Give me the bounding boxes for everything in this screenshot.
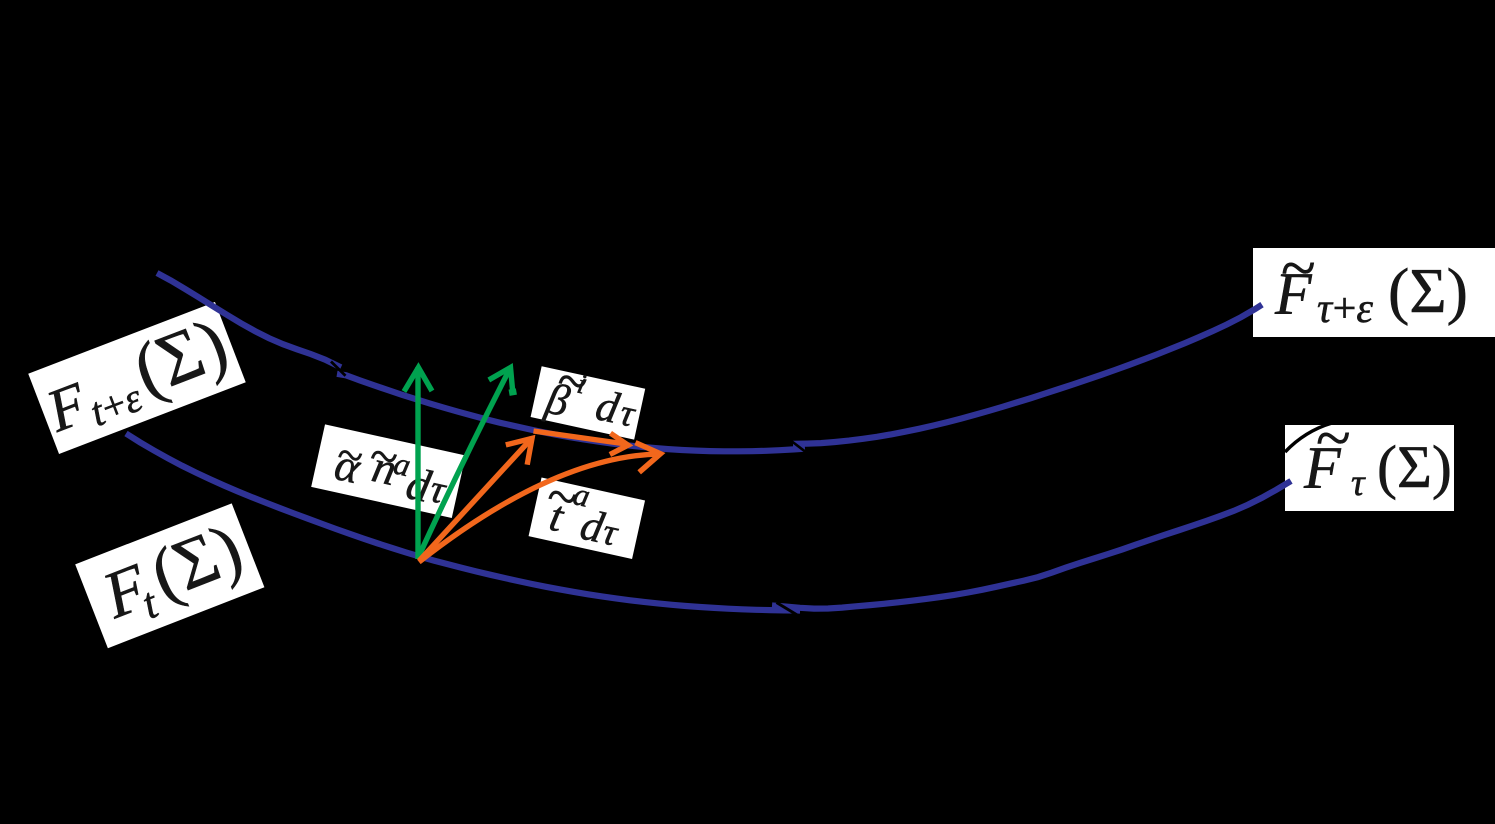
upper hypersurface curve (stroke 3) [793,305,1262,444]
svg-text:(Σ): (Σ) [1377,434,1452,500]
upper hypersurface curve (stroke 2) [337,374,805,452]
upper hypersurface curve (stroke 1) [157,273,341,367]
label beta-tilde^i dtau [530,345,650,442]
green arrow slanted [418,368,513,559]
seam gap on upper curve at x=336 [331,362,346,376]
svg-text:τ+ε: τ+ε [1317,286,1373,332]
label alpha-tilde n-tilde^a dtau [311,415,468,518]
svg-text:~: ~ [1316,402,1351,473]
thin black curve crossing label corner [1285,423,1332,452]
lower hypersurface curve (stroke 2) [772,481,1291,609]
green arrow alpha n (vertical normal vector) [404,367,432,559]
label F_t+eps(Sigma) [28,300,246,454]
orange t arrow (time vector) [419,443,661,562]
svg-text:τ: τ [1351,462,1366,504]
orange beta arrow (horizontal shift vector) [534,431,629,455]
seam gap on lower curve at x=787 [777,603,799,616]
label t-tilde^a dtau [528,462,648,560]
orange steep arrow [419,438,532,561]
seam gap on upper curve at x=797 [792,442,806,452]
svg-text:(Σ): (Σ) [1388,255,1468,326]
svg-text:~: ~ [1281,232,1316,303]
label F-tilde_tau+eps(Sigma) [1253,232,1495,337]
lower hypersurface curve (stroke 1) [126,434,800,611]
label F-tilde_tau(Sigma) [1285,402,1454,511]
label F_t(Sigma) [75,503,264,648]
